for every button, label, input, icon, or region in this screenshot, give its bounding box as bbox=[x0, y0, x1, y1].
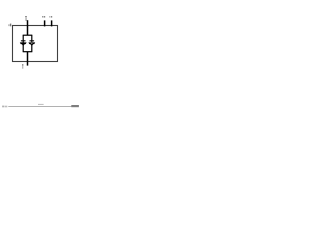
label left of box bbox=[8, 24, 11, 27]
left branch wire bbox=[22, 35, 24, 52]
pin 3 label bbox=[49, 16, 52, 18]
footer rule bbox=[8, 106, 73, 108]
right branch wire bbox=[31, 35, 33, 52]
pin 2 label bbox=[42, 16, 45, 18]
footer left text bbox=[2, 106, 7, 108]
pin 3 wire bbox=[51, 20, 53, 26]
bottom rail wire bbox=[23, 51, 33, 53]
pin 1 label bbox=[25, 16, 26, 21]
ground stub wire bbox=[27, 52, 29, 66]
IC box U1 bbox=[13, 26, 58, 62]
ground label bbox=[22, 64, 23, 68]
diode D2 bbox=[28, 40, 35, 46]
top rail wire bbox=[23, 34, 33, 36]
pin 1 wire bbox=[27, 20, 29, 35]
background bbox=[0, 0, 80, 114]
pin 2 wire bbox=[44, 20, 46, 26]
footer right bold page number bbox=[71, 105, 79, 107]
diode D1 bbox=[20, 40, 27, 46]
footer center text bbox=[38, 104, 44, 105]
